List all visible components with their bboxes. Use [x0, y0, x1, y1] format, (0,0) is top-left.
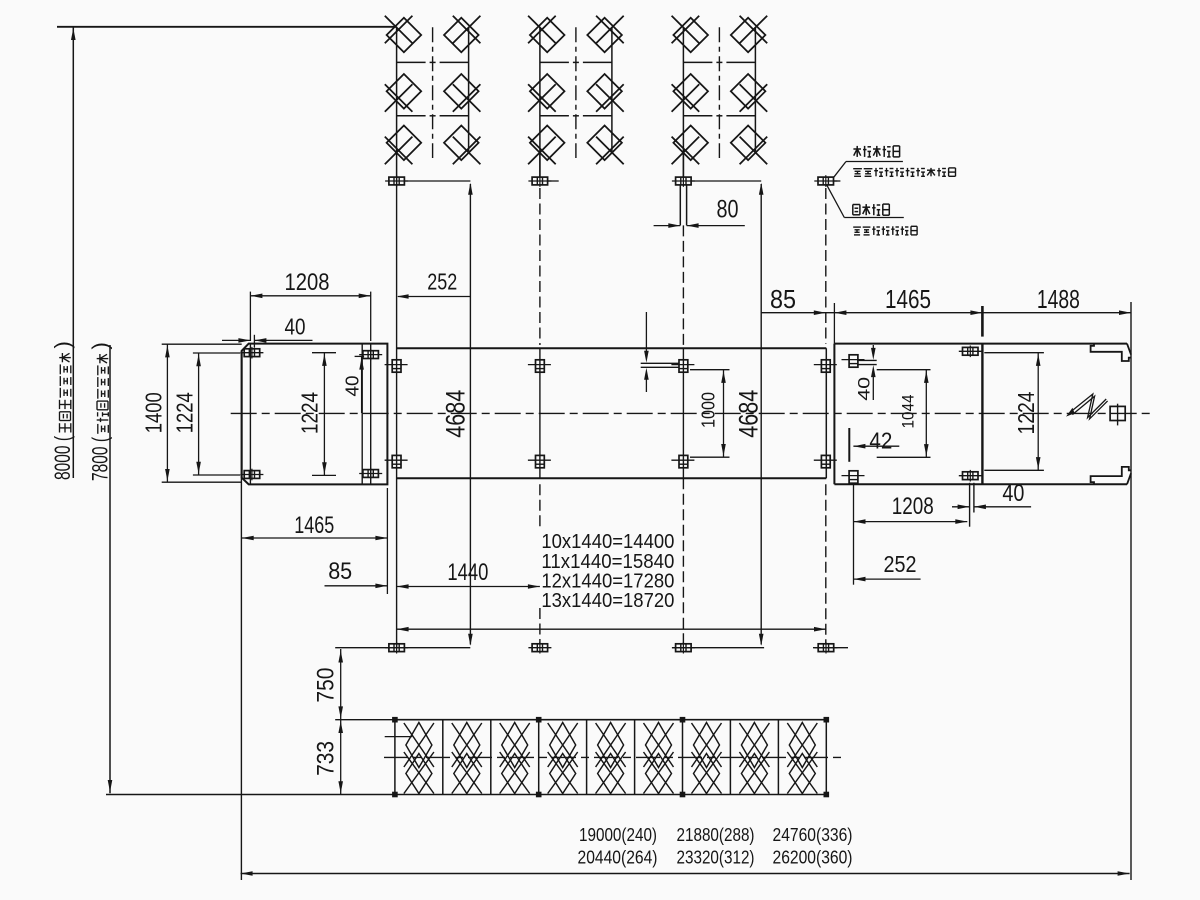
dimension 1465 top [826, 312, 983, 314]
svg-text:40: 40 [285, 313, 306, 339]
base row node squares [392, 717, 398, 723]
dimension 750 [340, 649, 342, 720]
dimension 252 bottom [854, 578, 921, 580]
svg-text:1488: 1488 [1037, 284, 1080, 314]
right-edge ext of left section [386, 488, 388, 594]
extent line top (8000) [57, 26, 397, 28]
bolt row line left [335, 647, 470, 649]
anchor square symbol [1110, 406, 1125, 420]
left section corner bolts [244, 349, 260, 357]
svg-text:21880(288): 21880(288) [677, 825, 755, 845]
svg-text:750: 750 [312, 668, 339, 703]
base row divider [490, 720, 492, 795]
dimension 40 bottom-right [952, 506, 970, 508]
base cell 3 crossed braces [502, 723, 528, 768]
svg-text:252: 252 [884, 551, 917, 577]
dimension 7800 vertical line [109, 345, 111, 793]
middle band right rail [825, 348, 827, 478]
rail / extension line at x=396.6 [396, 177, 398, 648]
svg-text:7800 (: 7800 ( [88, 437, 113, 481]
base row divider [682, 720, 684, 795]
dimension 1400 [162, 343, 242, 345]
left section outline [242, 344, 388, 485]
svg-text:1208: 1208 [892, 493, 934, 520]
base row divider [729, 720, 731, 795]
spool group 1 frame [396, 27, 398, 177]
base row end [825, 720, 827, 795]
base row end [394, 720, 396, 795]
svg-text:40: 40 [855, 377, 874, 401]
base cell 9 crossed braces [789, 723, 815, 768]
left edge extension line [240, 351, 242, 880]
middle band bottom edge [397, 477, 827, 479]
dimension 1224 right [984, 352, 1044, 354]
break arrow symbol [1071, 394, 1106, 418]
svg-text:252: 252 [427, 269, 457, 295]
base row top edge [395, 719, 826, 721]
spool group 2 frame [539, 27, 541, 177]
dashed drop line group 3 [682, 151, 684, 177]
spool group 2 row 1 crossed diamonds [530, 18, 565, 53]
base cell 4 crossed braces [550, 723, 576, 768]
svg-text:1000: 1000 [699, 392, 719, 428]
spool group 1 row 1 crossed diamonds [387, 18, 422, 53]
svg-text:1044: 1044 [899, 395, 918, 429]
spool group 1 row 2 crossed diamonds [387, 74, 422, 109]
base row divider [538, 720, 540, 795]
base cell 5 crossed braces [598, 723, 624, 768]
spool group 2 row 2 crossed diamonds [530, 74, 565, 109]
spool group 3 row 1 crossed diamonds [673, 18, 708, 53]
leader line lower annotation [827, 185, 845, 217]
svg-text:80: 80 [717, 195, 739, 223]
dimension 85 bottom [325, 585, 388, 587]
base row divider [777, 720, 779, 795]
label 7800 (vertical) [88, 342, 113, 481]
svg-text:20440(264): 20440(264) [578, 848, 658, 868]
anchor bolt below group 2 [532, 177, 548, 185]
right section divider [981, 344, 983, 485]
dashed drop line group 2 [539, 151, 541, 177]
dimension 40 right-upper [857, 359, 877, 361]
svg-text:1400: 1400 [141, 392, 167, 433]
base row bottom edge [395, 794, 826, 796]
anchor bolt with leader (right) [818, 177, 834, 185]
rail bolts on middle band [392, 360, 401, 372]
right edge extension line [1130, 302, 1132, 880]
dimension 1224 middle [312, 352, 336, 354]
svg-text:1224: 1224 [172, 392, 198, 433]
bolt row line right [672, 647, 764, 649]
base row divider [586, 720, 588, 795]
dimension 4684 right [760, 184, 762, 645]
base row centre line [384, 756, 844, 758]
slot lines below group-3 bolt [679, 185, 681, 226]
base cell 8 crossed braces [741, 723, 767, 768]
dimension 4684 left [469, 184, 471, 645]
dimension 1440 [397, 586, 540, 588]
left section inner rails [249, 344, 251, 485]
ext line to base row [335, 719, 395, 721]
spool group 3 row 2 crossed diamonds [673, 74, 708, 109]
svg-text:1465: 1465 [294, 512, 334, 539]
svg-text:13x1440=18720: 13x1440=18720 [541, 590, 674, 612]
unlabeled overall dim line [397, 628, 826, 630]
slot below right-section bottom bolt [969, 483, 971, 527]
spool group 3 row 3 crossed diamonds [673, 126, 708, 161]
svg-text:85: 85 [328, 558, 352, 585]
middle band top edge [397, 347, 827, 349]
label round-hole position [853, 204, 860, 206]
slot and dimension 42 [848, 428, 850, 462]
dimension 1224 left [193, 352, 240, 354]
dimension 1044 [877, 369, 931, 371]
svg-text:1465: 1465 [885, 284, 931, 314]
base cell 2 crossed braces [454, 723, 480, 768]
svg-text:40: 40 [343, 376, 363, 397]
dimension 1465 bottom [242, 537, 388, 539]
spool group 2 row 3 crossed diamonds [530, 126, 565, 161]
slot at group-3 top bolt [641, 362, 679, 364]
dimension 40 top-left [222, 339, 250, 341]
dimension 1488 top [982, 312, 1131, 314]
svg-text:24760(336): 24760(336) [773, 825, 853, 845]
svg-text:26200(360): 26200(360) [773, 848, 853, 868]
dimension 1000 [690, 369, 730, 371]
bolt row bolts [389, 644, 405, 652]
dimension 1208 bottom [854, 521, 968, 523]
svg-text:42: 42 [869, 428, 892, 454]
svg-text:): ) [50, 341, 75, 348]
base cell 1 crossed braces [406, 723, 432, 768]
small tick on base row [385, 736, 413, 738]
base cell 6 crossed braces [646, 723, 672, 768]
right section outline [833, 344, 835, 485]
extension below right-section left bolt [853, 484, 855, 585]
dimension 40 middle [355, 355, 365, 357]
separator tick [981, 306, 984, 337]
leader line upper annotation [834, 162, 846, 178]
svg-text:1440: 1440 [447, 559, 488, 586]
svg-text:): ) [88, 342, 113, 349]
base row divider [442, 720, 444, 795]
spool group 3 frame [682, 27, 684, 177]
main centre line [231, 412, 1153, 414]
svg-text:23320(312): 23320(312) [677, 848, 755, 868]
channel hook bottom [1091, 467, 1131, 484]
dimension 733 [340, 720, 342, 795]
dimension 85 top [761, 312, 826, 314]
spool group 1 row 3 crossed diamonds [387, 126, 422, 161]
dimension 8000 vertical line [72, 27, 74, 478]
channel hook top [1091, 344, 1131, 361]
base row divider [634, 720, 636, 795]
anchor bolt below group 3 [676, 177, 692, 185]
svg-text:19000(240): 19000(240) [579, 825, 657, 845]
svg-text:40: 40 [1002, 480, 1024, 507]
dimension 1208 [249, 292, 251, 341]
dashed drop line right bolt [825, 188, 827, 344]
dimension 80 [654, 225, 681, 227]
label slot-hole position [853, 148, 861, 150]
overall bottom dimension line [241, 873, 1130, 875]
extent line bottom [106, 794, 395, 796]
svg-text:8000 (: 8000 ( [50, 436, 75, 480]
right section bolts [849, 355, 858, 367]
svg-text:1208: 1208 [285, 269, 330, 296]
extension for dims above right section [833, 303, 835, 344]
svg-text:85: 85 [770, 284, 796, 314]
label 8000 (vertical) [50, 341, 75, 480]
base cell 7 crossed braces [694, 723, 720, 768]
dimension 252 left [398, 296, 470, 298]
anchor bolt below group 1 [389, 177, 405, 185]
svg-text:733: 733 [312, 741, 339, 776]
